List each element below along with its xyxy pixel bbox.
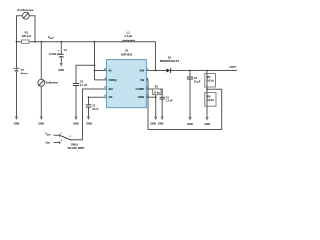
wire FB return loop xyxy=(146,80,222,130)
voltmeter xyxy=(38,79,59,86)
capacitor C3 xyxy=(86,105,99,111)
svg-text:10 kΩ: 10 kΩ xyxy=(154,92,161,95)
wire oscilloscope loop xyxy=(17,16,36,42)
node battery/bus xyxy=(16,41,18,43)
svg-text:GND: GND xyxy=(158,121,164,125)
op-amp U1 (boost converter IC) xyxy=(105,48,149,107)
resistor R4 xyxy=(205,93,216,107)
svg-text:0.1 µF: 0.1 µF xyxy=(80,83,88,87)
wire GND pin xyxy=(146,96,156,98)
wire R3 R4 divider xyxy=(206,71,208,110)
ground (voltmeter) xyxy=(38,104,44,126)
resistor R1 xyxy=(21,30,31,43)
svg-text:Battery: Battery xyxy=(21,72,29,75)
svg-text:C5: C5 xyxy=(194,76,198,80)
svg-text:R1: R1 xyxy=(25,30,29,34)
ground (R2 / GND pin) xyxy=(150,117,157,126)
node osc right xyxy=(34,41,36,43)
svg-text:Out: Out xyxy=(46,140,51,144)
wire EN to switch xyxy=(71,89,107,140)
svg-text:C1: C1 xyxy=(64,48,68,52)
ground (C5) xyxy=(187,108,193,126)
svg-text:22 nF: 22 nF xyxy=(92,108,99,111)
node R3 tap xyxy=(206,70,208,72)
svg-text:1: 1 xyxy=(61,132,63,134)
svg-text:2: 2 xyxy=(70,136,72,138)
capacitor C4 xyxy=(160,96,174,102)
svg-text:IN: IN xyxy=(109,69,112,73)
wire SS to C3 xyxy=(89,97,107,110)
svg-text:SS: SS xyxy=(109,95,113,99)
capacitor C2 xyxy=(73,79,88,87)
ground (C4) xyxy=(158,117,164,126)
node OUT xyxy=(230,65,237,69)
node voltmeter tap xyxy=(40,41,42,43)
svg-text:4.7 µH: 4.7 µH xyxy=(124,34,132,38)
svg-text:OUT: OUT xyxy=(230,65,237,69)
wire C2 branch xyxy=(76,65,95,104)
svg-text:10 µF: 10 µF xyxy=(194,80,201,84)
svg-text:GND: GND xyxy=(38,122,44,126)
svg-text:VBATT: VBATT xyxy=(45,131,52,136)
node IN tee xyxy=(94,70,96,72)
svg-text:L1: L1 xyxy=(127,30,131,34)
svg-text:3: 3 xyxy=(61,140,63,142)
svg-text:2: 2 xyxy=(147,78,149,80)
svg-text:100 mΩ: 100 mΩ xyxy=(21,34,31,38)
svg-text:EN: EN xyxy=(109,87,113,91)
svg-text:U1: U1 xyxy=(125,48,129,52)
wire main VBATT bus xyxy=(17,42,156,71)
node L1/SW xyxy=(155,70,157,72)
svg-text:10,000 µF: 10,000 µF xyxy=(49,53,60,56)
capacitor C1 xyxy=(49,48,68,57)
svg-text:ADP1611: ADP1611 xyxy=(121,53,133,57)
resistor R2 xyxy=(153,85,161,94)
wire R2 bottom to GND xyxy=(155,95,157,117)
switch SW1 xyxy=(45,131,85,150)
ground (C1) xyxy=(58,62,64,72)
svg-text:1.2 nF: 1.2 nF xyxy=(166,100,174,103)
svg-text:B/5: B/5 xyxy=(21,70,25,72)
svg-text:10 kΩ: 10 kΩ xyxy=(207,80,214,83)
svg-text:GND: GND xyxy=(204,122,210,126)
wire voltmeter branch xyxy=(40,42,42,104)
wire C1 branch xyxy=(60,42,62,62)
diode D1 xyxy=(160,55,179,73)
svg-text:C2: C2 xyxy=(80,79,84,83)
svg-text:R2: R2 xyxy=(155,85,159,88)
oscilloscope xyxy=(17,8,34,19)
wire battery branch xyxy=(16,42,18,104)
svg-text:GND: GND xyxy=(14,122,20,126)
svg-text:GND: GND xyxy=(58,68,64,72)
svg-text:VBATT: VBATT xyxy=(48,35,56,40)
node junction dots xyxy=(16,41,208,98)
node C1 tap xyxy=(60,41,62,43)
wire SW node to diode and OUT xyxy=(146,70,237,72)
node C5 tap xyxy=(189,70,191,72)
ground (battery) xyxy=(14,104,20,126)
inductor L1 xyxy=(122,30,134,41)
ground (C2) xyxy=(73,104,79,126)
node VIN feed tap xyxy=(94,41,96,43)
svg-text:FREQ: FREQ xyxy=(109,78,118,82)
node VBATT xyxy=(48,35,56,40)
svg-text:+: + xyxy=(58,49,60,53)
svg-text:MBR0520LT3: MBR0520LT3 xyxy=(160,59,179,63)
svg-text:Voltmeter: Voltmeter xyxy=(45,81,59,85)
svg-text:GND: GND xyxy=(187,122,193,126)
svg-text:COMP: COMP xyxy=(136,87,145,91)
wire C5 branch xyxy=(189,71,191,109)
node GND pin/R2 xyxy=(155,96,157,98)
svg-text:ON-OFF DPDT: ON-OFF DPDT xyxy=(68,147,86,150)
svg-text:Oscilloscope: Oscilloscope xyxy=(17,8,34,12)
svg-text:FB: FB xyxy=(140,78,144,82)
svg-text:SW: SW xyxy=(140,69,145,73)
node FB divider xyxy=(206,88,208,90)
ground (C3) xyxy=(86,110,92,126)
wire VIN/FREQ feed xyxy=(95,42,107,80)
svg-text:GND: GND xyxy=(150,121,156,125)
svg-text:GND: GND xyxy=(86,122,92,126)
ground (R4) xyxy=(204,110,210,127)
resistor R3 xyxy=(205,74,216,88)
node C2 tee xyxy=(94,64,96,66)
wire COMP network xyxy=(146,89,162,117)
battery B1 xyxy=(13,68,29,75)
capacitor C5 xyxy=(187,76,201,84)
svg-text:GND: GND xyxy=(138,95,144,99)
node C3 tee xyxy=(88,96,90,98)
svg-text:GND: GND xyxy=(73,122,79,126)
svg-text:10 kΩ: 10 kΩ xyxy=(207,99,214,102)
